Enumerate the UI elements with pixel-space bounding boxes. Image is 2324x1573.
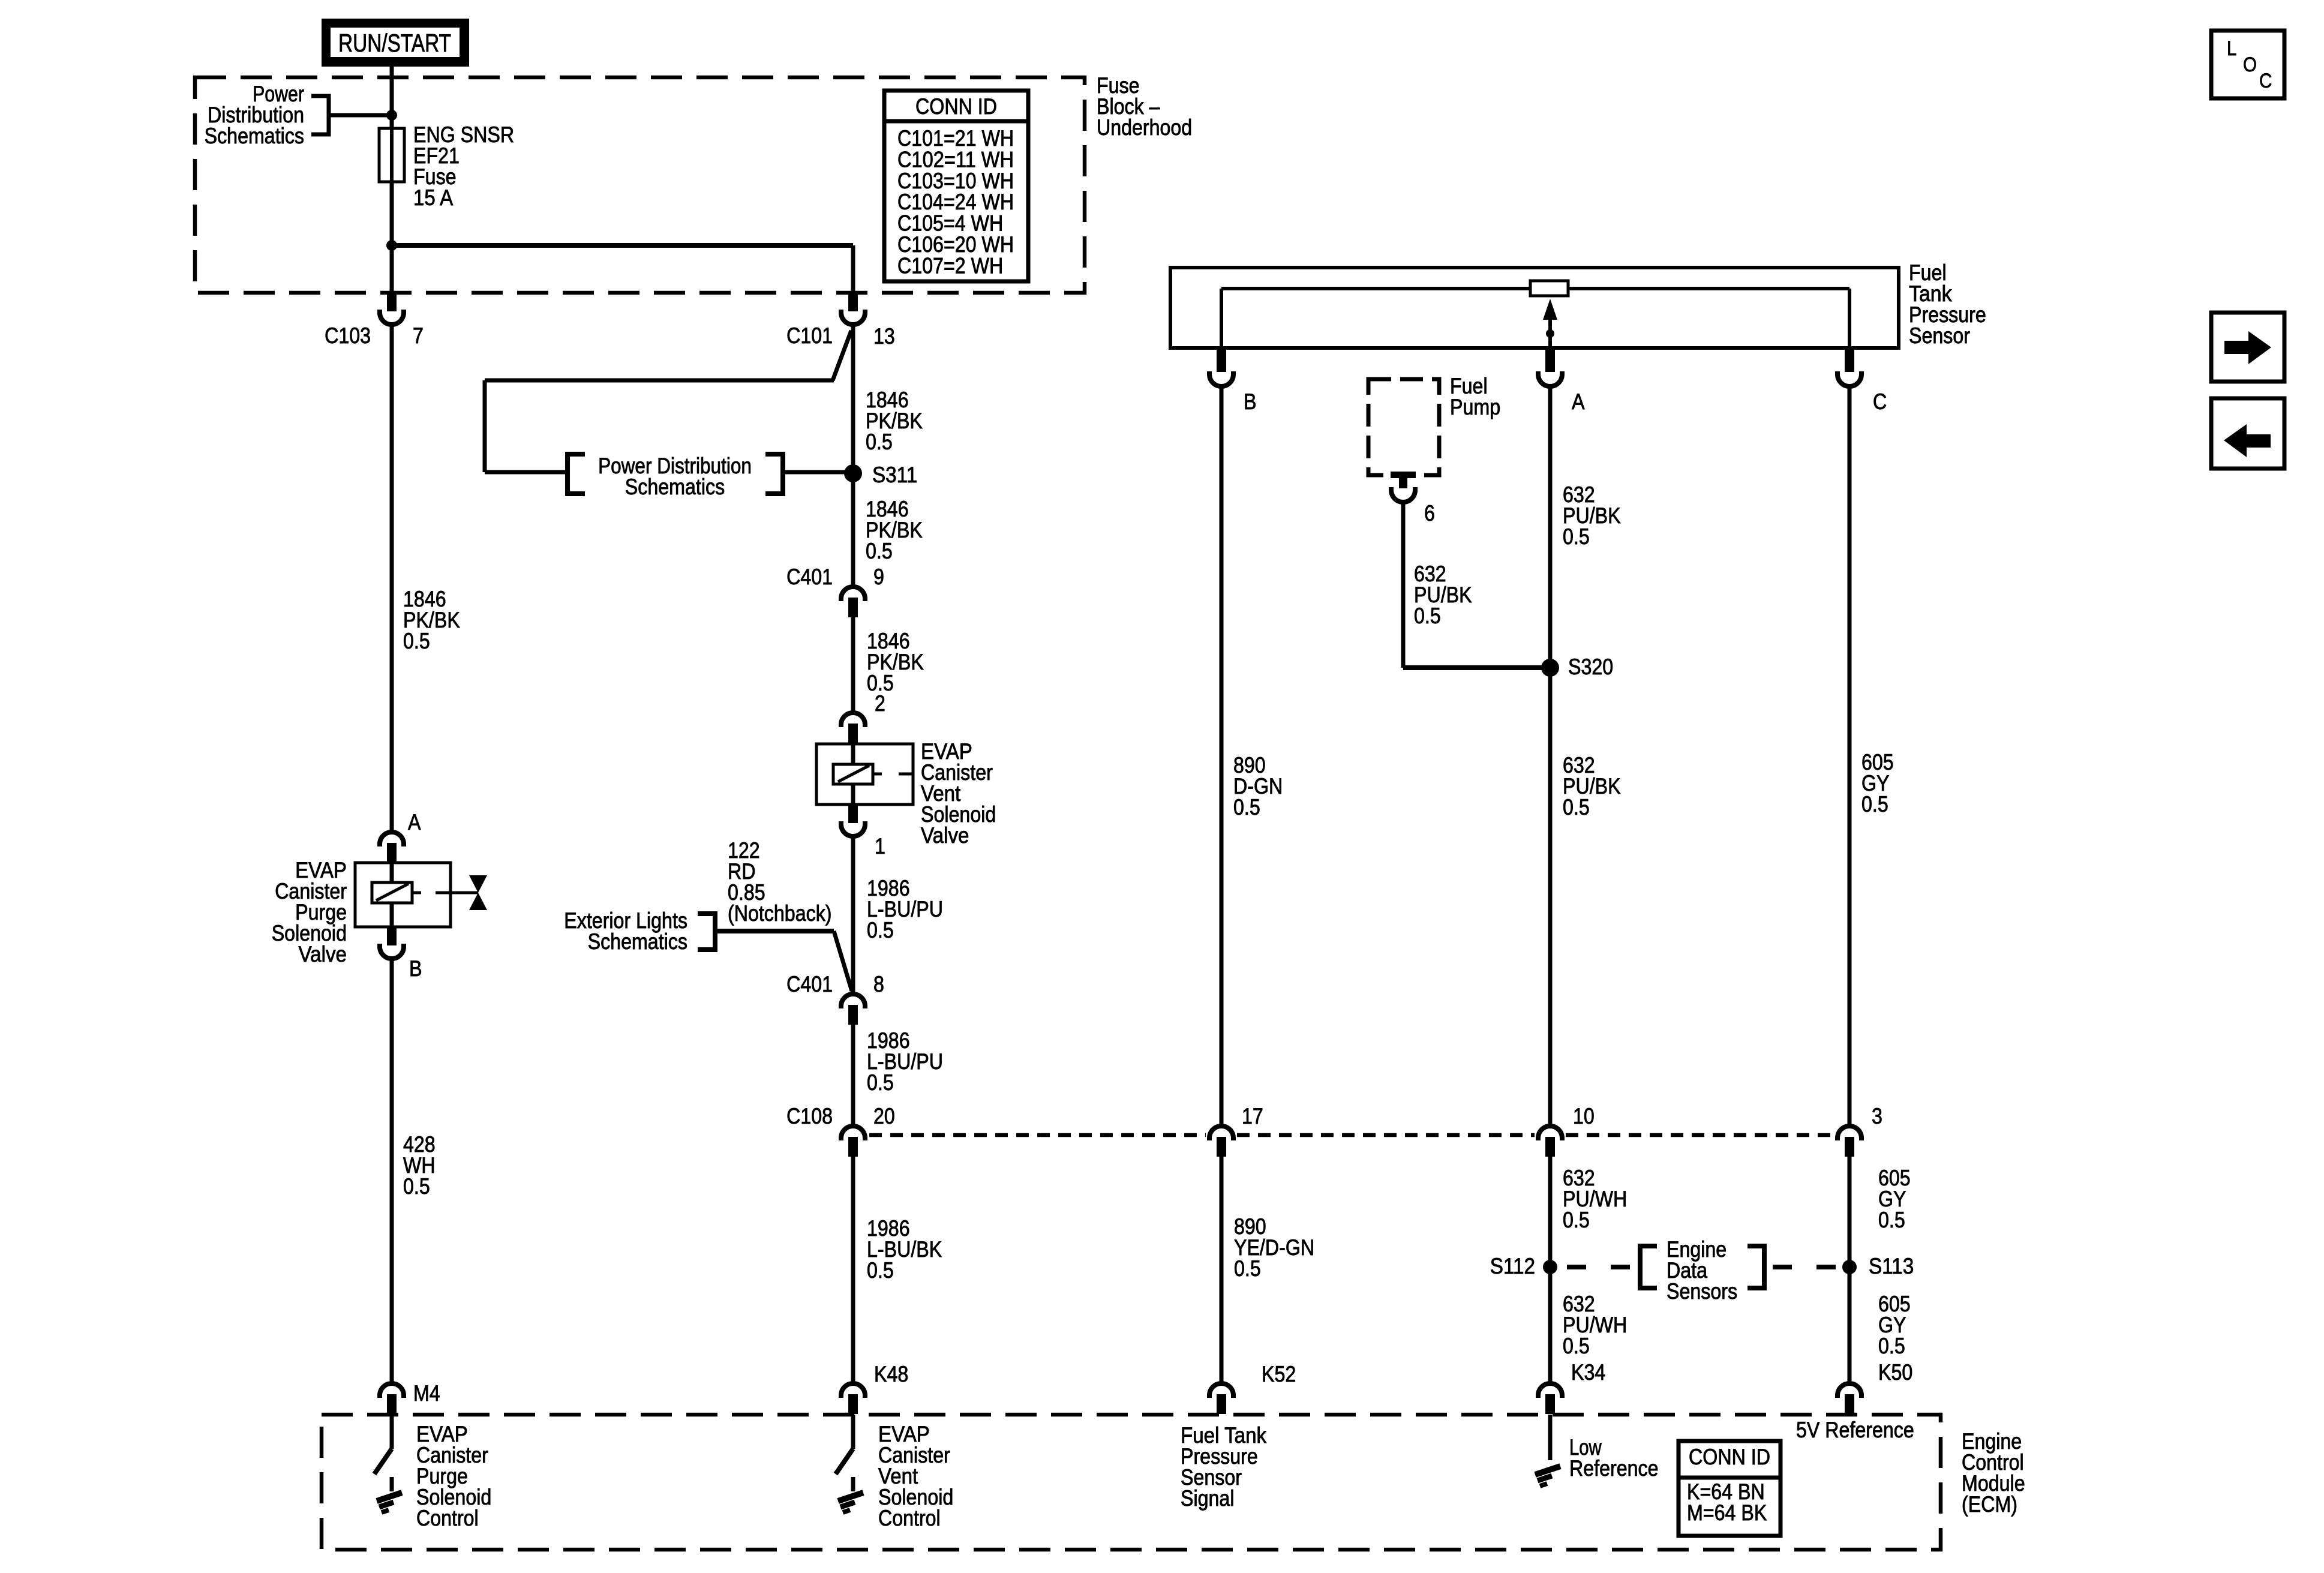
svg-text:6: 6 — [1424, 501, 1435, 526]
svg-text:C: C — [1873, 389, 1887, 414]
svg-text:0.5: 0.5 — [403, 1174, 430, 1199]
svg-text:10: 10 — [1573, 1104, 1595, 1128]
svg-text:0.5: 0.5 — [1878, 1334, 1905, 1358]
svg-text:Valve: Valve — [299, 942, 347, 966]
svg-text:C101: C101 — [786, 323, 833, 348]
svg-text:RUN/START: RUN/START — [338, 29, 451, 57]
svg-text:0.5: 0.5 — [1878, 1208, 1905, 1232]
svg-text:S112: S112 — [1490, 1254, 1535, 1278]
svg-text:S311: S311 — [872, 463, 917, 487]
svg-text:15 A: 15 A — [413, 185, 453, 210]
svg-text:C108: C108 — [786, 1104, 833, 1128]
svg-text:0.5: 0.5 — [1563, 1334, 1590, 1358]
svg-text:Pump: Pump — [1450, 395, 1500, 419]
svg-text:0.5: 0.5 — [867, 918, 894, 942]
svg-text:0.5: 0.5 — [1563, 524, 1590, 549]
svg-text:0.5: 0.5 — [867, 1258, 894, 1283]
svg-text:0.5: 0.5 — [1414, 604, 1441, 628]
svg-text:0.5: 0.5 — [866, 539, 893, 563]
svg-text:0.5: 0.5 — [1233, 795, 1260, 819]
svg-text:0.5: 0.5 — [867, 1070, 894, 1095]
svg-text:3: 3 — [1872, 1104, 1882, 1128]
svg-text:S320: S320 — [1568, 655, 1613, 679]
svg-text:0.5: 0.5 — [403, 629, 430, 653]
svg-text:Sensors: Sensors — [1667, 1279, 1737, 1304]
svg-text:2: 2 — [875, 691, 885, 716]
svg-text:Valve: Valve — [921, 823, 969, 848]
svg-text:B: B — [1244, 389, 1257, 414]
svg-text:8: 8 — [873, 972, 884, 996]
svg-text:5V Reference: 5V Reference — [1796, 1418, 1914, 1442]
svg-text:M=64 BK: M=64 BK — [1687, 1500, 1767, 1525]
svg-text:B: B — [409, 956, 422, 981]
svg-text:C: C — [2259, 70, 2272, 92]
svg-text:C103: C103 — [325, 323, 371, 348]
svg-text:9: 9 — [873, 565, 884, 589]
svg-text:Underhood: Underhood — [1097, 115, 1192, 140]
svg-text:13: 13 — [873, 324, 895, 349]
svg-text:Reference: Reference — [1569, 1456, 1659, 1481]
svg-text:A: A — [1572, 389, 1585, 414]
svg-text:Sensor: Sensor — [1909, 323, 1970, 348]
svg-text:0.5: 0.5 — [1234, 1256, 1261, 1281]
svg-text:Schematics: Schematics — [205, 124, 304, 148]
svg-text:CONN ID: CONN ID — [1689, 1445, 1770, 1469]
svg-text:17: 17 — [1242, 1104, 1263, 1128]
svg-text:O: O — [2243, 53, 2257, 76]
svg-text:Control: Control — [878, 1506, 941, 1530]
svg-text:M4: M4 — [413, 1381, 440, 1406]
svg-text:K48: K48 — [874, 1362, 908, 1386]
svg-text:S113: S113 — [1869, 1254, 1914, 1278]
svg-text:C107=2 WH: C107=2 WH — [897, 253, 1003, 278]
svg-text:K34: K34 — [1571, 1360, 1605, 1385]
svg-text:0.5: 0.5 — [866, 430, 893, 454]
svg-text:Control: Control — [416, 1506, 479, 1530]
svg-text:7: 7 — [413, 323, 424, 348]
svg-text:20: 20 — [873, 1104, 895, 1128]
svg-text:Schematics: Schematics — [588, 929, 687, 954]
svg-text:0.5: 0.5 — [1563, 1208, 1590, 1232]
svg-text:0.5: 0.5 — [1563, 795, 1590, 819]
svg-text:C401: C401 — [786, 972, 833, 996]
svg-text:L: L — [2227, 37, 2236, 60]
svg-text:(Notchback): (Notchback) — [728, 901, 832, 926]
svg-text:Signal: Signal — [1181, 1486, 1235, 1511]
svg-text:C401: C401 — [786, 565, 833, 589]
svg-text:(ECM): (ECM) — [1962, 1492, 2017, 1517]
svg-text:K52: K52 — [1262, 1362, 1296, 1386]
svg-text:Schematics: Schematics — [625, 475, 725, 499]
svg-text:A: A — [408, 810, 421, 834]
svg-text:CONN ID: CONN ID — [915, 94, 997, 119]
svg-text:0.5: 0.5 — [1861, 792, 1888, 816]
svg-text:K50: K50 — [1878, 1360, 1912, 1385]
svg-text:1: 1 — [875, 834, 885, 858]
